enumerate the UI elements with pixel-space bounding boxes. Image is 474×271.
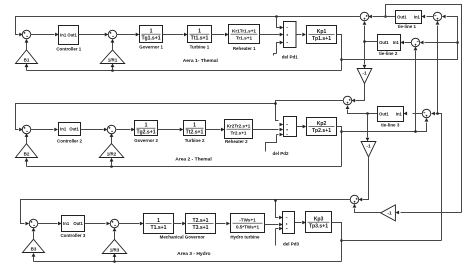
svg-text:Tp1.s+1: Tp1.s+1 bbox=[312, 36, 331, 42]
svg-text:Tg2.s+1: Tg2.s+1 bbox=[136, 129, 155, 135]
wire S1 to Controller 1 bbox=[31, 34, 55, 36]
sum C (tie-line 2 input summer) bbox=[411, 38, 420, 47]
svg-text:1/R2: 1/R2 bbox=[107, 152, 117, 157]
svg-text:Tt1.s+1: Tt1.s+1 bbox=[191, 35, 209, 41]
wire del f2 to sum B2 bottom bbox=[342, 123, 427, 132]
junction del f2 branch bbox=[340, 130, 343, 133]
junction ACE3 line to del Pd3 bbox=[274, 199, 277, 202]
sum B (tie-line 1 input summer) bbox=[433, 12, 442, 21]
svg-text:Tp2.s+1: Tp2.s+1 bbox=[312, 128, 331, 134]
wire S2 to Governor 1 bbox=[117, 34, 136, 36]
wire -1 area 2 output to sum A3 bbox=[363, 157, 369, 200]
svg-text:T2.s+1: T2.s+1 bbox=[192, 218, 208, 224]
junction ACE1 to del-Pd1 summer bbox=[275, 15, 278, 18]
block Governor 2 bbox=[135, 121, 158, 136]
junction ACE2 line bbox=[274, 102, 277, 105]
wire B2 to sum S1 area 2 bbox=[26, 137, 28, 144]
svg-text:-1: -1 bbox=[362, 71, 367, 77]
block Kp3 power system area 3 bbox=[306, 212, 332, 233]
wire ACE2 feedback line to area 2 and del Pd2 port1 bbox=[16, 101, 344, 130]
svg-text:1: 1 bbox=[145, 123, 148, 129]
svg-text:Out1: Out1 bbox=[67, 33, 77, 38]
svg-text:Out1: Out1 bbox=[379, 40, 389, 45]
svg-text:B2: B2 bbox=[24, 152, 30, 157]
svg-text:In1: In1 bbox=[396, 112, 403, 117]
block Kp2 power system area 2 bbox=[307, 118, 337, 136]
gain 1/R1 (droop area 1) bbox=[100, 50, 124, 64]
wire del f3 across to right riser bbox=[342, 240, 442, 242]
junction tie-line 3 out to -1 gain bbox=[366, 112, 369, 115]
junction tie-line 2 out bbox=[363, 40, 366, 43]
gain 1/R2 (droop area 2) bbox=[99, 144, 123, 158]
sum A3 (ACE3 summer) bbox=[350, 195, 359, 204]
wire top line to del Pd1 summer port 1 bbox=[277, 17, 280, 28]
wire 1/R3 to sum S2 area 3 bbox=[114, 232, 116, 240]
wire del f3 feedback to B3 and 1/R3 bbox=[34, 261, 342, 263]
sum S1 (area 1 ACE + B1 input) bbox=[22, 30, 31, 39]
svg-text:B1: B1 bbox=[24, 58, 30, 63]
svg-text:del Pd2: del Pd2 bbox=[272, 151, 289, 156]
wire ACE3 feedback line to area 3 and del Pd3 port 1 bbox=[21, 200, 351, 224]
svg-text:1: 1 bbox=[193, 123, 196, 129]
sum A (ACE1 summer) bbox=[360, 12, 369, 21]
gain B1 (frequency bias area 1) bbox=[16, 50, 38, 64]
svg-text:Turbine 1: Turbine 1 bbox=[190, 44, 210, 49]
wire Controller 2 to sum S2 area 2 bbox=[81, 129, 104, 131]
wire del f2 up into sum C bottom bbox=[415, 51, 417, 132]
svg-text:T3.s+1: T3.s+1 bbox=[192, 225, 208, 231]
wire up into gain 1/R1 bbox=[112, 67, 114, 71]
svg-text:In1: In1 bbox=[393, 40, 400, 45]
junction del f2 up to sum C bbox=[414, 130, 417, 133]
block Mechanical Governor stage 1 bbox=[144, 214, 174, 234]
wire del f1 to sum B right (tie-line 1 input) bbox=[342, 17, 458, 60]
wire del f1 branch to sum C right bbox=[425, 42, 458, 44]
sum A2 (ACE2 summer) bbox=[343, 96, 352, 105]
svg-text:Hydro turbine: Hydro turbine bbox=[230, 235, 260, 240]
wire Governor 1 to Turbine 1 bbox=[163, 34, 184, 36]
summer block del Pd3 bbox=[283, 212, 295, 234]
wire tie line from top right down to -1 gain area 3 bbox=[401, 212, 462, 214]
wire sum B2 to tie-line 3 In1 bbox=[413, 113, 423, 115]
svg-text:tie-line 1: tie-line 1 bbox=[398, 24, 417, 29]
summer block del Pd2 bbox=[284, 117, 297, 137]
wire Reheater 2 to del Pd2 port 2 bbox=[253, 129, 279, 131]
wire B3 to sum S1 area 3 bbox=[33, 232, 35, 240]
wire del f3 up into sum B bottom bbox=[437, 26, 439, 114]
wire S2 to Governor 2 bbox=[116, 129, 131, 131]
svg-text:Area 3 - Hydro: Area 3 - Hydro bbox=[177, 251, 210, 257]
block tie-line 3 bbox=[378, 107, 404, 122]
svg-text:In1: In1 bbox=[63, 221, 70, 226]
svg-text:1/R3: 1/R3 bbox=[110, 248, 120, 253]
wire tie-line 2 out to sum A bottom and gain -1 bbox=[365, 26, 378, 65]
svg-text:Kr1Tr1.s+1: Kr1Tr1.s+1 bbox=[232, 29, 256, 34]
svg-text:1/R1: 1/R1 bbox=[108, 58, 118, 63]
svg-text:Out1: Out1 bbox=[379, 112, 389, 117]
block Controller 1 bbox=[59, 26, 79, 45]
block Turbine 2 bbox=[184, 121, 206, 136]
svg-text:Tp3.s+1: Tp3.s+1 bbox=[309, 223, 328, 229]
block Reheater 2 bbox=[225, 120, 253, 139]
wire up into gain 1/R3 bbox=[114, 257, 116, 262]
wire tie-line 1 out to sum A bbox=[373, 16, 396, 18]
wire sum C to tie-line 2 In1 bbox=[405, 42, 412, 44]
block Governor 1 bbox=[140, 26, 163, 43]
wire branch up over the top to area 3 bbox=[386, 5, 462, 213]
wire tie-line 3 out to sum A2 bottom bbox=[348, 110, 378, 114]
svg-text:Aera 1- Themal: Aera 1- Themal bbox=[183, 58, 219, 64]
svg-text:1: 1 bbox=[198, 29, 201, 35]
wire del f1 feedback line to B1 and 1/R1 bbox=[27, 70, 342, 72]
svg-text:In1: In1 bbox=[60, 33, 67, 38]
svg-text:Kp3: Kp3 bbox=[314, 217, 324, 223]
svg-text:tie-line 2: tie-line 2 bbox=[379, 51, 398, 56]
sum S1 area 2 bbox=[22, 125, 31, 134]
svg-text:-TWs+1: -TWs+1 bbox=[239, 218, 256, 223]
wire B1 to sum S1 bbox=[26, 43, 28, 50]
block Mechanical Governor stage 2 bbox=[186, 214, 216, 234]
svg-text:Governor 1: Governor 1 bbox=[139, 44, 163, 49]
junction 1/R3 pickoff bbox=[113, 260, 116, 263]
junction 1/R1 pickoff area 1 bbox=[111, 69, 114, 72]
wire 1/R2 to sum S2 area 2 bbox=[111, 137, 113, 144]
svg-text:Kp1: Kp1 bbox=[317, 29, 327, 35]
junction del f3 branch to tie summers bbox=[340, 239, 343, 242]
svg-text:Controller 1: Controller 1 bbox=[56, 46, 81, 51]
svg-text:Turbine 2: Turbine 2 bbox=[185, 138, 205, 143]
wire del Pd2 stub port 3 bbox=[266, 135, 279, 152]
gain -1 area 3 (left pointing) bbox=[381, 205, 396, 221]
sum B2 (tie-line 3 input summer) bbox=[422, 109, 431, 118]
wire governor stage 1 to stage 2 bbox=[174, 223, 182, 225]
wire del Pd3 to Kp3 bbox=[295, 222, 302, 224]
gain 1/R3 (droop area 3) bbox=[102, 239, 126, 253]
gain B3 (frequency bias area 3) bbox=[23, 239, 45, 252]
sum S1 area 3 bbox=[29, 219, 38, 228]
wire Hydro turbine to del Pd3 port 2 bbox=[265, 224, 279, 226]
block Controller 3 bbox=[62, 216, 85, 232]
svg-text:Controller 2: Controller 2 bbox=[57, 138, 82, 143]
node ACE1 feedback top line (area 1) bbox=[16, 17, 361, 35]
wire governor to Hydro turbine bbox=[216, 223, 226, 225]
wire del Pd3 stub port 3 bbox=[276, 229, 279, 246]
junction ACE1 branch to area-3 via top line bbox=[384, 15, 387, 18]
wire del f2 feedback to B2 and 1/R2 gains bbox=[27, 166, 342, 168]
svg-text:-1: -1 bbox=[387, 211, 392, 217]
svg-text:Kr2Tr2.s+1: Kr2Tr2.s+1 bbox=[227, 124, 251, 129]
block tie-line 1 bbox=[396, 11, 422, 24]
junction del f3 to sum B bottom bbox=[436, 112, 439, 115]
svg-text:B3: B3 bbox=[31, 247, 37, 252]
wire 1/R1 to sum S2 bbox=[112, 43, 114, 50]
svg-text:In1: In1 bbox=[414, 15, 421, 20]
block Reheater 1 bbox=[229, 25, 260, 44]
gain -1 (area 1 tie feedback) bbox=[357, 69, 372, 84]
block Kp1 power system area 1 bbox=[307, 26, 337, 44]
wire down into area 2 -1 gain bbox=[367, 114, 369, 138]
svg-text:Out1: Out1 bbox=[397, 15, 407, 20]
wire -1 output to sum A2 bbox=[356, 84, 365, 101]
svg-text:del Pd3: del Pd3 bbox=[283, 242, 300, 247]
wire sum B to tie-line 1 In1 bbox=[427, 16, 434, 18]
wire Turbine 2 to Reheater 2 bbox=[206, 129, 221, 131]
block Hydro turbine bbox=[231, 214, 265, 233]
wire up into gain 1/R2 bbox=[111, 162, 113, 167]
svg-text:Out1: Out1 bbox=[69, 127, 79, 132]
svg-text:Out1: Out1 bbox=[73, 221, 83, 226]
block tie-line 2 bbox=[378, 35, 401, 51]
svg-text:Tt2.s+1: Tt2.s+1 bbox=[186, 129, 204, 135]
svg-text:T1.s+1: T1.s+1 bbox=[150, 225, 166, 231]
svg-text:In1: In1 bbox=[60, 127, 67, 132]
wire S1 to Controller 2 bbox=[31, 129, 54, 131]
wire del Pd1 stub input port 3 bbox=[274, 43, 280, 56]
block Turbine 1 bbox=[188, 26, 212, 43]
wire -1 area 3 to sum A3 bottom bbox=[355, 209, 381, 213]
wire Turbine 1 to Reheater 1 bbox=[212, 34, 225, 36]
wire del Pd2 to Kp2 bbox=[297, 126, 303, 128]
wire Reheater 1 to summer del Pd1 port 2 bbox=[260, 34, 280, 36]
wire up into gain B2 bbox=[26, 162, 28, 167]
sum S2 area 2 bbox=[107, 125, 116, 134]
svg-text:Area 2 - Themal: Area 2 - Themal bbox=[175, 156, 212, 162]
wire Kp1 output del-f1 down bbox=[337, 35, 342, 71]
svg-text:1: 1 bbox=[157, 218, 160, 224]
wire Kp3 output del f3 down bbox=[332, 223, 342, 262]
gain -1 area 2 bbox=[361, 142, 376, 158]
svg-text:0.5*TWs+1: 0.5*TWs+1 bbox=[236, 224, 260, 229]
svg-text:-1: -1 bbox=[366, 144, 371, 150]
svg-text:1: 1 bbox=[150, 29, 153, 35]
svg-text:Mechanical Governor: Mechanical Governor bbox=[160, 235, 205, 240]
wire Controller 1 to sum S2 bbox=[79, 34, 105, 36]
svg-text:Reheater 2: Reheater 2 bbox=[225, 139, 248, 144]
wire Governor 2 to Turbine 2 bbox=[158, 129, 180, 131]
sum S2 (area 1 governor input) bbox=[108, 30, 117, 39]
wire del f3 from bottom to sum B2 right bbox=[436, 114, 442, 241]
wire up into gain B3 bbox=[33, 257, 35, 262]
wire del Pd1 summer to Kp1 block bbox=[297, 34, 302, 36]
wire S2 to Mechanical Governor bbox=[119, 223, 140, 225]
svg-text:Tg1.s+1: Tg1.s+1 bbox=[141, 35, 160, 41]
gain B2 (frequency bias area 2) bbox=[16, 144, 38, 158]
summer block del Pd1 bbox=[284, 22, 297, 48]
wire S1 to Controller 3 bbox=[38, 223, 58, 225]
svg-text:Governor 2: Governor 2 bbox=[134, 138, 158, 143]
junction del f1 branch to sum C bbox=[456, 41, 459, 44]
block Controller 2 bbox=[59, 123, 81, 136]
wire Kp2 output del f2 down bbox=[337, 127, 342, 167]
junction del f1 branch bbox=[340, 58, 343, 61]
wire up into gain B1 bbox=[26, 67, 28, 71]
wire Controller 3 to sum S2 area 3 bbox=[85, 223, 106, 225]
svg-text:tie-line 3: tie-line 3 bbox=[381, 122, 400, 127]
svg-text:Kp2: Kp2 bbox=[317, 121, 327, 127]
svg-text:Tr2.s+1: Tr2.s+1 bbox=[231, 130, 247, 135]
svg-text:Controller 3: Controller 3 bbox=[60, 233, 85, 238]
junction 1/R2 pickoff bbox=[110, 165, 113, 168]
svg-text:del Pd1: del Pd1 bbox=[282, 55, 299, 60]
sum S2 area 3 bbox=[110, 219, 119, 228]
svg-text:Reheater 1: Reheater 1 bbox=[233, 46, 256, 51]
svg-text:Tr1.s+1: Tr1.s+1 bbox=[236, 35, 253, 40]
